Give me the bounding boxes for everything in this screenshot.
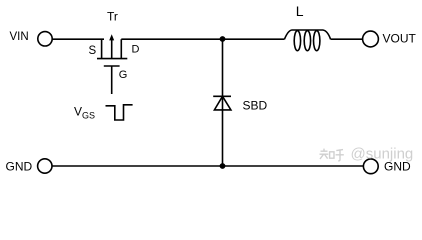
terminal VOUT circle: [363, 31, 379, 47]
watermark 知乎 glyphs: [320, 149, 344, 161]
svg-text:VIN: VIN: [10, 31, 29, 43]
inductor L coil: [284, 30, 330, 39]
terminal GND right circle: [363, 159, 378, 174]
wire switch node down to diode and ground: [222, 39, 224, 166]
transistor Q1 Tr substrate arrow shaft: [111, 40, 113, 59]
wire drain to switch node and inductor: [121, 38, 284, 40]
wire ground rail: [52, 165, 363, 167]
wire inductor to VOUT: [331, 38, 363, 40]
terminal GND left circle: [38, 159, 52, 173]
svg-text:D: D: [132, 43, 140, 55]
transistor Q1 Tr drain lead: [120, 39, 122, 58]
svg-text:VGS: VGS: [74, 104, 95, 120]
svg-text:G: G: [119, 69, 128, 81]
V_GS pulse waveform: [106, 105, 133, 120]
transistor Q1 Tr gate lead: [111, 66, 113, 94]
diode SBD triangle: [214, 96, 231, 110]
svg-text:GND: GND: [6, 159, 33, 173]
junction switch node: [220, 36, 226, 42]
svg-text:VOUT: VOUT: [383, 31, 417, 45]
svg-text:S: S: [89, 45, 97, 57]
transistor Q1 Tr channel bar: [97, 58, 127, 60]
wire VIN to transistor source: [52, 38, 104, 40]
transistor Q1 Tr source lead: [101, 39, 103, 58]
svg-text:Tr: Tr: [107, 10, 118, 24]
svg-text:@sunjing: @sunjing: [351, 146, 414, 163]
junction ground node: [220, 163, 226, 169]
transistor Q1 Tr gate bar: [104, 65, 120, 67]
diode SBD cathode bar: [213, 95, 231, 97]
svg-text:L: L: [296, 3, 304, 19]
terminal VIN circle: [38, 32, 52, 46]
transistor Q1 Tr substrate arrowhead: [109, 34, 114, 40]
svg-text:SBD: SBD: [243, 99, 268, 113]
